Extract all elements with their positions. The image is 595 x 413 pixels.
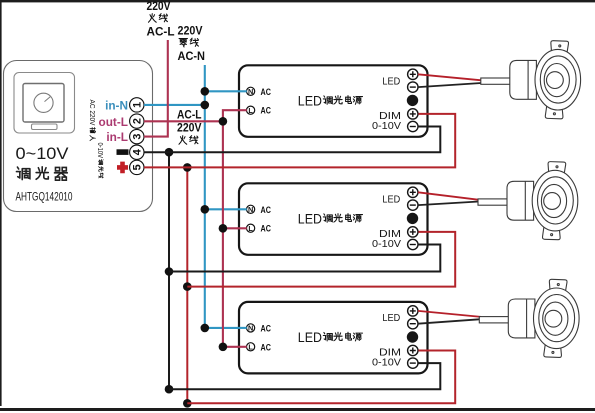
label 220V 火线 AC-L (top) (147, 1, 175, 39)
label minus (117, 149, 129, 155)
label 0-10V调光线 (rotated) (96, 143, 103, 178)
wire AC-L crimson vertical top (144, 40, 168, 137)
wire red DIM+ driver2 (187, 232, 455, 287)
svg-text:AC-L: AC-L (177, 110, 202, 122)
node red junctions (183, 163, 192, 408)
wire black DIM- bus driver1 (144, 127, 440, 153)
terminal 3 (130, 129, 144, 143)
svg-text:in-L: in-L (106, 130, 128, 144)
wire crimson stub into driver1 L (238, 109, 247, 111)
label AC-L 220V 火线 (middle) (177, 110, 202, 145)
node blue junctions (201, 87, 210, 332)
svg-text:in-N: in-N (105, 98, 128, 112)
wire out-L crimson (144, 120, 223, 122)
svg-text:1: 1 (132, 102, 144, 108)
border frame bottom (0, 408, 595, 411)
wire in-N blue (144, 104, 205, 106)
terminal 5 (130, 160, 144, 174)
svg-text:220V: 220V (178, 26, 203, 38)
svg-text:AC-N: AC-N (178, 51, 206, 63)
LED driver U2 (239, 183, 428, 255)
wire crimson branch driver2 (223, 227, 247, 229)
svg-text:220V: 220V (177, 123, 202, 135)
wire lamp2 red (418, 192, 479, 200)
svg-text:AC 220V: AC 220V (88, 100, 97, 126)
dimmer knob (34, 93, 53, 112)
svg-text:220V: 220V (147, 1, 171, 13)
wire lamp2 black (418, 202, 479, 206)
LED driver U1 (239, 65, 428, 137)
LED lamp 1 (481, 41, 581, 119)
LED driver U3 (239, 302, 428, 374)
wire lamp3 black (418, 319, 481, 324)
dimmer faceplate (14, 73, 75, 134)
wire blue stub into driver1 N (238, 90, 247, 92)
wire blue branch driver2 (205, 208, 247, 210)
dimmer 0-10V outer box (4, 61, 153, 212)
border frame left (0, 0, 2, 406)
svg-text:out-L: out-L (99, 115, 128, 129)
svg-text:4: 4 (132, 149, 144, 155)
label 220V 零线 AC-N (top) (178, 26, 206, 64)
wire lamp1 red (418, 74, 482, 80)
svg-text:AC-L: AC-L (147, 27, 175, 39)
border frame top (0, 0, 595, 2)
svg-text:3: 3 (132, 134, 144, 140)
wire red vertical (186, 167, 188, 403)
wire lamp1 black (418, 83, 482, 87)
label plus (117, 162, 128, 174)
terminal 2 (130, 114, 144, 128)
dimmer slot (32, 124, 58, 130)
dimmer knob square (23, 84, 64, 123)
wire lamp3 red (418, 311, 481, 317)
wire black vertical (168, 152, 170, 389)
svg-text:5: 5 (132, 164, 144, 170)
label 调光器 (16, 167, 67, 180)
wire AC-N blue vertical (204, 65, 206, 328)
wire red DIM+ bus driver1 (144, 114, 455, 167)
terminal 4 (130, 145, 144, 159)
wire crimson stub into driver2 L (238, 227, 247, 229)
label AC 220V输入 (rotated) (88, 100, 97, 141)
svg-text:0-10V: 0-10V (96, 143, 103, 159)
wire red DIM+ driver3 (187, 351, 455, 404)
wire crimson L bus vertical (223, 110, 247, 347)
terminal 1 (130, 98, 144, 112)
wire blue stub into driver3 N (238, 327, 247, 329)
wire blue stub into driver2 N (238, 208, 247, 210)
node crimson junctions (219, 117, 228, 351)
svg-text:AHTGQ142010: AHTGQ142010 (16, 189, 73, 203)
wire black DIM- driver3 (169, 363, 440, 389)
wire black DIM- driver2 (169, 245, 440, 272)
wire blue branch driver1 (205, 90, 247, 92)
LED lamp 3 (479, 279, 579, 357)
svg-text:0~10V: 0~10V (16, 145, 69, 163)
LED lamp 2 (478, 162, 578, 240)
wire crimson stub into driver3 L (238, 346, 247, 348)
node black junctions (165, 148, 174, 394)
svg-text:2: 2 (132, 118, 144, 124)
wire blue branch driver3 (205, 327, 247, 329)
